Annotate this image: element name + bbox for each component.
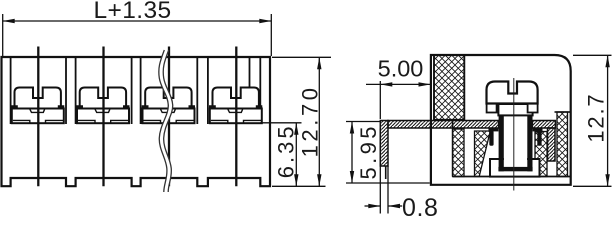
svg-text:6.35: 6.35 <box>274 123 299 178</box>
svg-text:0.8: 0.8 <box>402 194 439 217</box>
svg-text:5.95: 5.95 <box>356 123 381 179</box>
svg-text:5.00: 5.00 <box>378 56 424 82</box>
svg-text:12.70: 12.70 <box>298 84 323 157</box>
svg-text:12.7: 12.7 <box>584 93 609 143</box>
svg-text:L+1.35: L+1.35 <box>93 0 171 24</box>
